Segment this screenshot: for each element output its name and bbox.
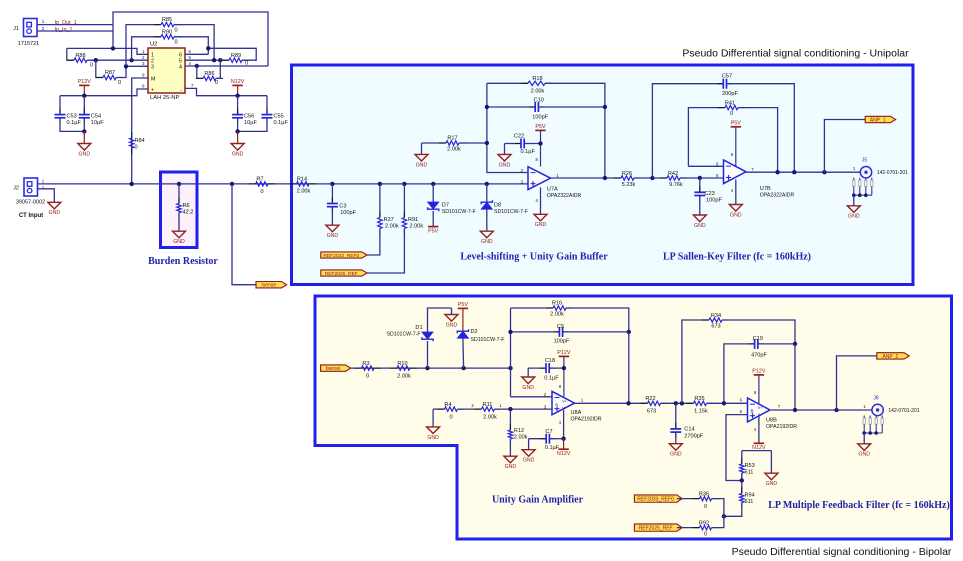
svg-text:Ip_Out_1: Ip_Out_1 xyxy=(55,20,77,26)
svg-text:J1: J1 xyxy=(13,26,19,32)
svg-text:R85: R85 xyxy=(162,17,172,23)
wire pin7 to N12V rail xyxy=(185,88,267,95)
svg-text:GND: GND xyxy=(730,212,742,218)
ground C7 xyxy=(522,439,535,464)
svg-text:Burden Resistor: Burden Resistor xyxy=(148,256,218,267)
svg-text:LP Multiple Feedback Filter (f: LP Multiple Feedback Filter (fc = 160kHz… xyxy=(768,500,950,511)
ground C56/C55 xyxy=(231,131,244,157)
wire U8A V- xyxy=(559,410,564,439)
op-amp U7B OPA2322AIDR xyxy=(724,160,747,184)
svg-text:39057-0002: 39057-0002 xyxy=(16,200,45,206)
connector J8 142-0701-201 xyxy=(863,395,919,415)
junction xyxy=(722,514,726,518)
wire pin8 to P12V rail xyxy=(60,89,148,96)
net flag Isense output xyxy=(256,282,287,288)
wire pin3 row xyxy=(126,65,148,67)
resistor R3 xyxy=(355,361,382,380)
svg-text:673: 673 xyxy=(647,409,656,415)
svg-text:C5: C5 xyxy=(557,324,564,330)
svg-text:2.00k: 2.00k xyxy=(514,435,528,441)
resistor R10 xyxy=(390,361,417,380)
connector J5 142-0701-201 xyxy=(853,158,908,178)
junction xyxy=(793,408,797,412)
svg-text:Isense: Isense xyxy=(261,283,276,289)
ground R17 xyxy=(415,143,428,168)
svg-text:P12V: P12V xyxy=(557,350,571,356)
svg-text:2700pF: 2700pF xyxy=(684,433,704,439)
svg-text:LP Sallen-Key Filter (fc = 160: LP Sallen-Key Filter (fc = 160kHz) xyxy=(663,252,811,263)
svg-text:GND: GND xyxy=(505,464,517,470)
svg-text:ANP_1: ANP_1 xyxy=(870,117,886,123)
svg-text:R90: R90 xyxy=(162,29,172,35)
svg-text:42.2: 42.2 xyxy=(183,209,194,215)
svg-text:200pF: 200pF xyxy=(722,91,738,97)
svg-text:470pF: 470pF xyxy=(751,353,767,359)
svg-text:0.1µF: 0.1µF xyxy=(521,149,536,155)
capacitor C53 xyxy=(55,96,85,132)
resistor R7 xyxy=(249,177,275,196)
svg-text:GND: GND xyxy=(232,151,244,157)
capacitor C5 xyxy=(511,324,629,345)
net flag Isense input xyxy=(321,365,351,371)
svg-text:0: 0 xyxy=(704,532,707,538)
power P5V at U7B xyxy=(731,121,742,167)
svg-text:R4: R4 xyxy=(444,402,451,408)
svg-text:N12V: N12V xyxy=(557,451,571,457)
svg-text:0.1µF: 0.1µF xyxy=(545,445,560,451)
wire ANP_2 xyxy=(837,356,877,410)
power P12V at U8B xyxy=(752,369,766,404)
svg-text:GND: GND xyxy=(694,223,706,229)
svg-text:P12V: P12V xyxy=(78,79,92,85)
power N12V xyxy=(231,79,245,96)
diode D7 SD101CW-7-F xyxy=(428,184,476,227)
resistor R42 xyxy=(660,171,687,188)
svg-text:C19: C19 xyxy=(753,336,763,342)
wire Isense tap xyxy=(232,184,256,285)
wire main row xyxy=(38,183,529,185)
ground J2 xyxy=(48,202,61,209)
ground U7B V- xyxy=(729,180,742,219)
svg-text:R34: R34 xyxy=(711,313,721,319)
svg-text:C3: C3 xyxy=(339,204,346,210)
svg-text:0: 0 xyxy=(135,145,138,151)
svg-text:R53: R53 xyxy=(745,463,755,469)
node R91 xyxy=(402,182,406,186)
svg-text:GND: GND xyxy=(481,239,493,245)
svg-text:2.00k: 2.00k xyxy=(550,311,564,317)
resistor R36 xyxy=(677,491,724,516)
svg-text:0: 0 xyxy=(704,504,707,510)
svg-text:511: 511 xyxy=(745,499,754,505)
wire J1 pin2 xyxy=(37,30,113,32)
wire R35 to U8B xyxy=(707,402,748,404)
svg-text:GND: GND xyxy=(523,458,535,464)
op-amp U7A OPA2322AIDR xyxy=(528,167,551,190)
svg-text:0.1µF: 0.1µF xyxy=(67,120,82,126)
resistor R94 xyxy=(724,481,755,517)
bipolar section box xyxy=(315,296,952,539)
node R27 xyxy=(378,182,382,186)
svg-text:673: 673 xyxy=(711,324,720,330)
wire U7B inverting xyxy=(688,165,723,167)
ground D8 xyxy=(480,231,493,238)
svg-text:GND: GND xyxy=(848,214,860,220)
wire C5 loop to output xyxy=(628,332,630,403)
svg-text:0: 0 xyxy=(366,374,369,380)
resistor R41 xyxy=(688,100,777,172)
svg-text:P5V: P5V xyxy=(535,124,546,130)
capacitor C14 xyxy=(670,403,704,443)
svg-text:R17: R17 xyxy=(447,136,457,142)
capacitor C10 xyxy=(487,98,605,121)
svg-text:R84: R84 xyxy=(135,138,145,144)
node Isense tap xyxy=(230,182,234,186)
svg-text:-: - xyxy=(180,88,182,94)
svg-text:SD101CW-7-F: SD101CW-7-F xyxy=(387,331,421,337)
svg-text:GND: GND xyxy=(522,385,534,391)
svg-text:GND: GND xyxy=(670,452,682,458)
resistor R86 xyxy=(196,60,223,86)
svg-text:REF2025_REF: REF2025_REF xyxy=(325,271,358,277)
svg-text:R35: R35 xyxy=(694,396,704,402)
svg-text:GND: GND xyxy=(327,233,339,239)
svg-text:OPA2322AIDR: OPA2322AIDR xyxy=(760,193,795,199)
svg-text:U8B: U8B xyxy=(766,418,777,424)
wire R22-R35 xyxy=(661,402,694,404)
svg-text:Pseudo Differential signal con: Pseudo Differential signal conditioning … xyxy=(682,48,909,60)
svg-text:511: 511 xyxy=(745,469,754,475)
svg-text:R14: R14 xyxy=(297,177,307,183)
resistor R92 xyxy=(677,516,724,537)
svg-text:R42: R42 xyxy=(668,171,678,177)
capacitor C54 xyxy=(79,96,104,132)
svg-text:5.23k: 5.23k xyxy=(622,182,636,188)
ground U7A V- xyxy=(534,188,547,229)
svg-text:Ip_In_1: Ip_In_1 xyxy=(55,27,73,33)
resistor R16 xyxy=(511,301,629,332)
net flag REF2033_REF0 (unipolar) xyxy=(321,252,367,258)
capacitor C55 xyxy=(238,96,289,132)
junction xyxy=(562,366,566,370)
svg-text:J8: J8 xyxy=(873,395,879,401)
svg-text:LAH 25-NP: LAH 25-NP xyxy=(150,95,179,101)
svg-text:GND: GND xyxy=(766,481,778,487)
svg-text:C7: C7 xyxy=(545,429,552,435)
svg-text:OPA2192IDR: OPA2192IDR xyxy=(766,424,797,430)
svg-text:GND: GND xyxy=(446,322,458,328)
svg-text:100pF: 100pF xyxy=(554,339,570,345)
junction xyxy=(235,129,239,133)
power P12V xyxy=(78,79,92,96)
wire pin6 row xyxy=(185,53,208,55)
svg-text:Pseudo Differential signal con: Pseudo Differential signal conditioning … xyxy=(732,546,952,558)
node D1 xyxy=(425,366,429,370)
wire feedback vertical xyxy=(510,308,512,397)
svg-text:R11: R11 xyxy=(483,402,493,408)
svg-text:100pF: 100pF xyxy=(340,210,356,216)
svg-text:Unity Gain Amplifier: Unity Gain Amplifier xyxy=(492,495,584,506)
svg-text:R3: R3 xyxy=(362,361,369,367)
svg-text:C23: C23 xyxy=(705,191,715,197)
svg-text:2.00k: 2.00k xyxy=(447,147,461,153)
junction xyxy=(698,176,702,180)
node pin3 xyxy=(124,64,128,68)
svg-text:R18: R18 xyxy=(532,76,542,82)
svg-text:C56: C56 xyxy=(244,114,254,120)
svg-text:U7B: U7B xyxy=(760,186,771,192)
wire pin5 row xyxy=(185,59,220,61)
resistor R26 xyxy=(614,171,641,188)
svg-text:R7: R7 xyxy=(256,177,263,183)
wire U8A output xyxy=(575,402,648,404)
node C3 xyxy=(330,182,334,186)
svg-text:P12V: P12V xyxy=(752,369,766,375)
ground D1 xyxy=(445,308,458,328)
svg-text:0: 0 xyxy=(90,63,93,69)
wire M pin xyxy=(132,78,148,184)
svg-text:P5V: P5V xyxy=(458,302,469,308)
svg-text:R36: R36 xyxy=(699,491,709,497)
capacitor C18 xyxy=(528,358,564,381)
svg-text:GND: GND xyxy=(49,210,61,216)
resistor R6 xyxy=(177,184,194,231)
net flag REF2025_REF (bipolar) xyxy=(634,524,682,531)
svg-text:C54: C54 xyxy=(91,114,101,120)
svg-text:0.1µF: 0.1µF xyxy=(274,120,289,126)
net flag REF2025_REF (unipolar) xyxy=(321,270,367,276)
resistor R88 xyxy=(67,48,96,68)
svg-text:C57: C57 xyxy=(722,74,732,80)
node feedback tap xyxy=(508,366,512,370)
svg-text:P5V: P5V xyxy=(731,121,742,127)
svg-text:D2: D2 xyxy=(471,329,478,335)
node R84/main xyxy=(130,182,134,186)
svg-text:9.76k: 9.76k xyxy=(669,182,683,188)
net flag ANP_1 xyxy=(865,116,895,122)
node R86/pin5 xyxy=(218,58,222,62)
wire J2 pin2 to gnd xyxy=(38,189,55,203)
svg-text:SD101CW-7-F: SD101CW-7-F xyxy=(442,209,476,215)
svg-text:0: 0 xyxy=(118,80,121,86)
resistor R14 xyxy=(290,177,317,195)
junction xyxy=(485,105,489,109)
wire R26-R42 xyxy=(634,177,667,179)
svg-text:R91: R91 xyxy=(408,217,418,223)
svg-text:0: 0 xyxy=(215,80,218,86)
svg-text:R16: R16 xyxy=(552,301,562,307)
junction xyxy=(235,94,239,98)
svg-text:R89: R89 xyxy=(231,53,241,59)
svg-text:V+: V+ xyxy=(562,399,567,403)
node R85/pin5 xyxy=(212,58,216,62)
svg-text:D7: D7 xyxy=(442,203,449,209)
burden resistor box xyxy=(161,172,198,248)
svg-text:SD101CW-7-F: SD101CW-7-F xyxy=(494,209,528,215)
resistor R34 xyxy=(682,313,795,404)
svg-text:REF2025_REF: REF2025_REF xyxy=(639,526,673,532)
svg-text:GND: GND xyxy=(416,162,428,168)
connector J2 xyxy=(13,178,45,206)
ground C53/C54 xyxy=(78,131,91,157)
node D8 xyxy=(485,182,489,186)
svg-text:Level-shifting + Unity Gain Bu: Level-shifting + Unity Gain Buffer xyxy=(460,252,608,263)
wire top bus xyxy=(113,12,268,66)
svg-text:R22: R22 xyxy=(645,396,655,402)
svg-text:C18: C18 xyxy=(545,358,555,364)
svg-text:2.00k: 2.00k xyxy=(297,188,311,194)
ground N12V loop xyxy=(765,451,778,488)
svg-text:Isense: Isense xyxy=(326,366,341,372)
resistor R91 xyxy=(367,184,423,273)
resistor R22 xyxy=(641,396,668,415)
svg-text:0: 0 xyxy=(260,189,263,195)
svg-text:R92: R92 xyxy=(699,520,709,526)
wire U7B output xyxy=(746,171,860,173)
node R90/R89 xyxy=(206,46,210,50)
svg-text:0: 0 xyxy=(174,40,177,46)
node R90/pin2 xyxy=(129,58,133,62)
node D7 xyxy=(431,182,435,186)
svg-text:C14: C14 xyxy=(684,427,694,433)
svg-text:1.15k: 1.15k xyxy=(694,409,708,415)
resistor R85 xyxy=(126,17,214,66)
svg-text:2.00k: 2.00k xyxy=(410,224,424,230)
junction xyxy=(538,141,542,145)
connector J8 shield pins xyxy=(863,416,865,434)
capacitor C56 xyxy=(232,96,257,132)
junction xyxy=(508,407,512,411)
connector J5 shield pins xyxy=(853,178,855,196)
svg-text:C22: C22 xyxy=(514,134,524,140)
svg-text:N12V: N12V xyxy=(231,79,245,85)
ground R6 xyxy=(173,231,186,238)
junction xyxy=(485,141,489,145)
capacitor C19 xyxy=(724,336,795,403)
svg-text:J5: J5 xyxy=(862,158,868,164)
svg-text:100pF: 100pF xyxy=(532,115,548,121)
wire inverting input U7A xyxy=(487,83,528,172)
svg-text:R12: R12 xyxy=(514,428,524,434)
ground J5 xyxy=(847,195,860,220)
svg-text:10µF: 10µF xyxy=(244,120,257,126)
junction xyxy=(603,176,607,180)
node R6/main xyxy=(177,182,181,186)
svg-text:0: 0 xyxy=(245,61,248,67)
junction xyxy=(508,330,512,334)
junction xyxy=(650,176,654,180)
diode D1 SD101CW-7-F xyxy=(387,308,452,368)
svg-text:R88: R88 xyxy=(75,53,85,59)
wire pin4 row xyxy=(185,65,268,67)
svg-text:REF2033_REF0: REF2033_REF0 xyxy=(323,253,359,259)
wire N12V loop xyxy=(742,450,772,452)
resistor R11 xyxy=(475,402,553,421)
wire U8A inverting xyxy=(511,396,553,398)
capacitor C7 xyxy=(529,429,564,451)
ground C22 xyxy=(498,144,511,169)
wire U8B plus input xyxy=(726,415,748,481)
wire U8B output xyxy=(771,409,872,411)
svg-text:10µF: 10µF xyxy=(91,120,104,126)
svg-text:B: B xyxy=(750,409,753,414)
ground R4 xyxy=(427,409,440,441)
wire U7A output xyxy=(551,177,622,179)
capacitor C23 xyxy=(694,178,722,215)
svg-text:GND: GND xyxy=(173,239,185,245)
power P5V at U7A xyxy=(535,124,546,166)
wire J1 pin1 xyxy=(37,24,113,26)
resistor R12 xyxy=(508,409,527,456)
resistor R18 xyxy=(487,76,605,178)
svg-text:C10: C10 xyxy=(534,98,544,104)
net flag REF2033_REF0 (bipolar) xyxy=(634,495,682,502)
svg-text:OPA2322AIDR: OPA2322AIDR xyxy=(547,193,582,199)
svg-text:U7A: U7A xyxy=(547,187,558,193)
svg-text:1715721: 1715721 xyxy=(18,41,39,47)
node R88/pin2 xyxy=(94,58,98,62)
chip U2 LAH 25-NP xyxy=(148,42,185,101)
svg-text:C55: C55 xyxy=(274,114,284,120)
svg-text:142-0701-201: 142-0701-201 xyxy=(888,408,919,414)
junction xyxy=(626,401,630,405)
capacitor C57 xyxy=(652,74,794,179)
svg-text:U2: U2 xyxy=(150,42,157,48)
svg-text:R6: R6 xyxy=(183,203,190,209)
pin numbers U2 xyxy=(142,49,194,89)
svg-text:R86: R86 xyxy=(204,71,214,77)
svg-text:R26: R26 xyxy=(622,171,632,177)
wire pin2 row xyxy=(96,59,148,61)
op-amp U8B OPA2192IDR xyxy=(748,398,771,422)
svg-text:ANP_2: ANP_2 xyxy=(882,354,898,360)
svg-text:R10: R10 xyxy=(397,361,407,367)
ground C3 xyxy=(326,225,339,232)
junction xyxy=(793,342,797,346)
junction xyxy=(82,94,86,98)
junction xyxy=(561,437,565,441)
diode D8 SD101CW-7-F xyxy=(481,184,528,231)
resistor R84 xyxy=(130,132,145,154)
wire R42 to U7B xyxy=(680,177,724,179)
ground C18 xyxy=(522,368,535,391)
svg-text:V+: V+ xyxy=(758,406,763,410)
resistor R4 xyxy=(433,402,481,421)
svg-text:P5V: P5V xyxy=(428,229,439,235)
ground C14 xyxy=(669,444,682,451)
svg-text:GND: GND xyxy=(499,162,511,168)
resistor R35 xyxy=(687,396,714,415)
node D2 xyxy=(461,366,465,370)
svg-text:GND: GND xyxy=(858,452,870,458)
junction xyxy=(740,478,744,482)
power N12V at U8A xyxy=(557,439,571,457)
resistor R53 xyxy=(740,451,755,481)
junction xyxy=(82,129,86,133)
svg-text:100pF: 100pF xyxy=(706,198,722,204)
wire Isense row xyxy=(351,367,511,369)
ground C23 xyxy=(693,215,706,222)
svg-text:SD101CW-7-F: SD101CW-7-F xyxy=(471,337,505,343)
svg-text:C53: C53 xyxy=(67,114,77,120)
unipolar section box xyxy=(292,65,914,285)
capacitor C22 xyxy=(505,134,541,156)
resistor R90 xyxy=(132,29,209,60)
svg-text:REF2033_REF0: REF2033_REF0 xyxy=(637,497,674,503)
net flag ANP_2 xyxy=(877,353,909,359)
svg-text:0: 0 xyxy=(449,415,452,421)
resistor R17 xyxy=(422,136,487,153)
